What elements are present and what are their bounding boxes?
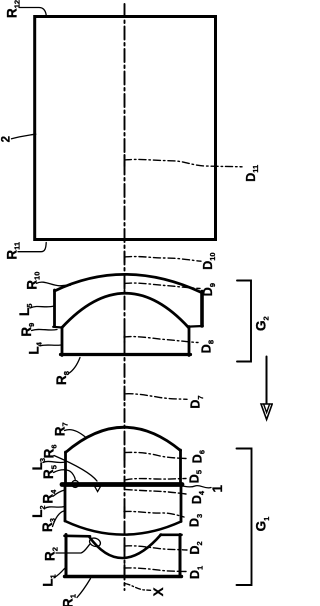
D11 spacing line xyxy=(125,159,243,166)
D9 spacing line xyxy=(125,283,201,288)
leader R10 xyxy=(37,282,71,286)
node D11 tick xyxy=(124,155,126,166)
D3 spacing line xyxy=(124,511,184,517)
lens L4 right edge xyxy=(188,327,191,356)
D10 spacing line xyxy=(125,257,202,262)
lens L1 top rim right xyxy=(161,533,182,536)
lens L3 left edge xyxy=(64,452,67,483)
D4 spacing line xyxy=(125,490,186,495)
leader 1 xyxy=(183,486,212,488)
lens L5 left edge xyxy=(53,290,56,327)
optical axis X (dash-dot centerline) xyxy=(124,4,126,590)
D6 spacing line xyxy=(125,452,187,458)
lens L5/L4 right step xyxy=(189,325,203,328)
node D2 tick xyxy=(124,541,126,551)
lens L2 bottom surface R3 (arc) xyxy=(65,521,181,535)
lens L1 concave surface R2 xyxy=(89,535,161,559)
leader R8 xyxy=(69,358,81,374)
node D9 tick xyxy=(124,279,126,289)
R2 pointer loop xyxy=(88,537,101,548)
leader R2 xyxy=(56,544,90,553)
lens L2 left edge xyxy=(64,486,67,521)
leader L5 xyxy=(30,306,54,308)
leader L1 xyxy=(54,569,65,578)
lens L1 right edge xyxy=(179,535,182,577)
lens L1 left edge xyxy=(65,535,68,577)
leader R12 xyxy=(19,8,46,16)
lens L5 surface R10 (top arc) xyxy=(55,274,202,292)
R5 pointer loop xyxy=(72,481,79,488)
bracket G1 xyxy=(237,449,252,586)
D7 spacing line xyxy=(126,394,187,400)
node D3 tick xyxy=(124,507,126,517)
leader R1 xyxy=(77,579,91,598)
prism 2 (rectangle) xyxy=(35,17,216,240)
lens L5 right edge xyxy=(200,292,204,327)
D5 spacing line xyxy=(125,479,186,481)
node D10 tick xyxy=(124,252,126,262)
svg-text:1: 1 xyxy=(210,485,225,493)
D8 spacing line xyxy=(124,337,198,343)
lens L3 surface R7 (top arc) xyxy=(66,427,181,452)
axis label X leader xyxy=(125,584,151,591)
lens L3 right edge xyxy=(179,450,182,483)
node D1 tick xyxy=(124,565,126,574)
leader L4 xyxy=(40,344,61,347)
R6 pointer triangle xyxy=(95,486,101,491)
cemented surfaces R5/R6 (thick bar) xyxy=(62,482,182,487)
D2 spacing line xyxy=(125,546,188,550)
lens L2 right edge xyxy=(180,486,183,522)
leader R11 xyxy=(18,243,46,252)
node D8 tick xyxy=(124,332,126,342)
node D6 tick xyxy=(124,450,126,460)
lens L5/L4 left step xyxy=(53,326,62,329)
leader R9 xyxy=(32,329,58,330)
leader R3 xyxy=(53,511,64,527)
node D7 tick xyxy=(124,390,126,400)
arrow (zoom movement) xyxy=(266,357,268,405)
lens L1 top rim left xyxy=(65,534,91,537)
leader R5 xyxy=(54,470,76,481)
leader 2 xyxy=(12,134,36,139)
lens L1 bottom flat surface R1 xyxy=(65,575,182,578)
leader R6 xyxy=(54,456,97,482)
bracket G2 xyxy=(237,281,251,362)
lens L4 left edge xyxy=(61,328,64,356)
leader L3 xyxy=(43,461,65,462)
D1 spacing line xyxy=(124,568,186,572)
cemented surface R9 (arc) xyxy=(62,293,189,327)
leader R7 xyxy=(65,430,87,438)
leader L2 xyxy=(45,507,65,509)
svg-text:X: X xyxy=(151,587,166,596)
leader R4 xyxy=(53,490,65,496)
svg-text:2: 2 xyxy=(1,136,13,142)
lens L4 bottom flat surface R8 xyxy=(61,353,191,356)
